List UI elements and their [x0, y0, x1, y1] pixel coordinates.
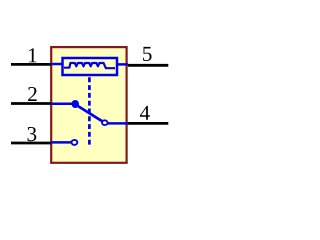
pin 3 wire — [11, 142, 51, 145]
pin 5 label — [143, 47, 152, 61]
pin 4 contact circle — [102, 120, 108, 125]
actuation dashed line — [88, 77, 91, 147]
pin 5 blue stub — [116, 63, 128, 66]
coil winding — [64, 63, 115, 68]
pin 4 label — [140, 106, 150, 120]
pin 1 wire — [11, 63, 51, 66]
pin 3 blue stub — [51, 141, 72, 144]
pin 4 blue stub — [108, 122, 129, 125]
relay body — [51, 47, 126, 163]
pin 2 label — [28, 87, 36, 101]
pin 2 wire — [11, 102, 51, 105]
pin 2 blue stub — [51, 103, 73, 106]
pin 3 contact circle — [72, 140, 78, 145]
pin 1 label — [29, 48, 36, 62]
coil box — [63, 58, 118, 75]
switch arm — [76, 105, 103, 122]
pin 1 blue stub — [51, 63, 62, 66]
pin 4 wire — [128, 122, 168, 125]
common pole dot — [72, 100, 80, 108]
pin 5 wire — [128, 64, 168, 67]
pin 3 label — [28, 127, 37, 141]
